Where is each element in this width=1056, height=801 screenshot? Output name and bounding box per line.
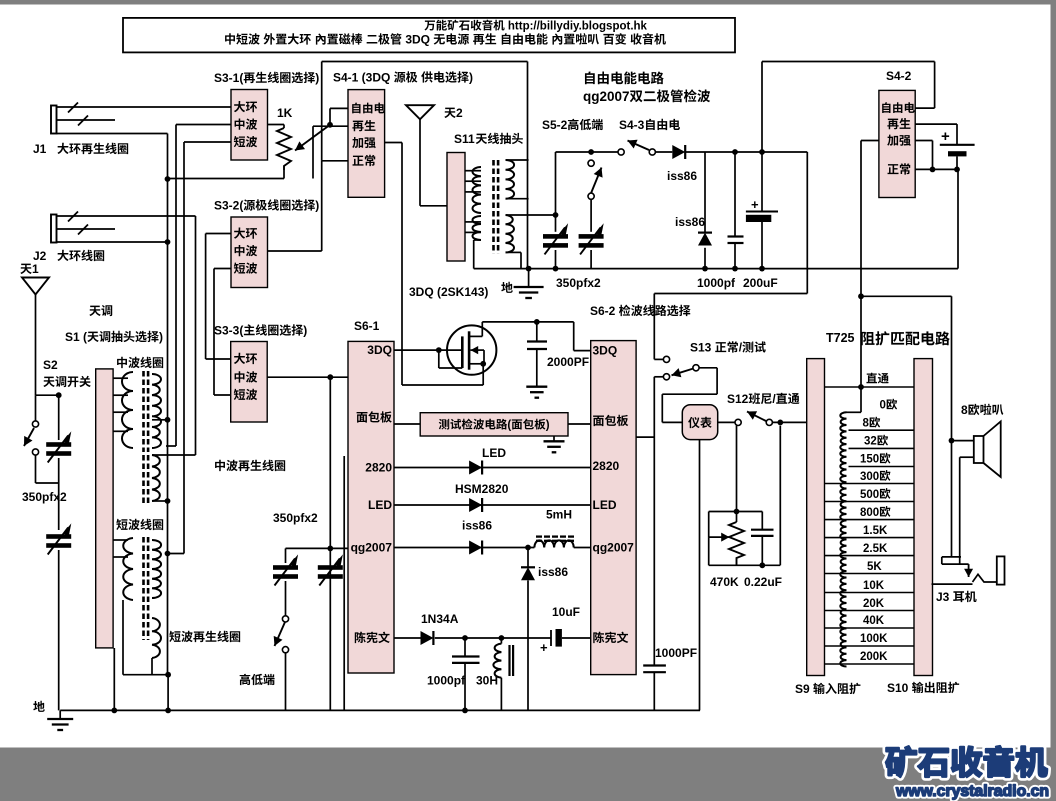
switch S1 selector box xyxy=(96,369,113,648)
tank bottom rail xyxy=(709,564,781,566)
svg-text:1.5K: 1.5K xyxy=(863,525,888,537)
wire free-energy top row xyxy=(556,151,619,153)
frame right bar xyxy=(1051,0,1056,801)
meter 仪表 xyxy=(682,405,717,440)
svg-text:S3-3(: S3-3( xyxy=(214,324,243,338)
svg-text:+: + xyxy=(751,197,759,212)
svg-text:5mH: 5mH xyxy=(546,508,572,522)
wire secondary vertical xyxy=(527,62,529,269)
svg-text:S1 (: S1 ( xyxy=(65,330,87,344)
wire S12 to tank xyxy=(736,426,738,512)
wire S4-1 正常 to S3-2 xyxy=(322,160,348,162)
svg-text:1000pf: 1000pf xyxy=(697,276,736,290)
svg-text:3DQ (2SK143): 3DQ (2SK143) xyxy=(409,285,488,299)
svg-text:2820: 2820 xyxy=(593,459,620,473)
svg-text:1000pf: 1000pf xyxy=(427,674,466,688)
svg-text:100K: 100K xyxy=(860,633,888,645)
transistor Q1 3DQ MOSFET xyxy=(447,325,496,374)
wire speaker return xyxy=(960,456,974,458)
wire ladder direct 直通 xyxy=(825,386,915,388)
svg-text:T725: T725 xyxy=(826,331,855,345)
svg-text:): ) xyxy=(315,199,319,213)
wire bundle vertical b xyxy=(175,125,177,447)
svg-text:S9: S9 xyxy=(795,682,813,696)
svg-text:): ) xyxy=(303,324,307,338)
svg-text:J1: J1 xyxy=(33,142,47,156)
wire bottom ground bus xyxy=(60,709,700,711)
svg-text:+: + xyxy=(941,128,950,145)
ground test box xyxy=(553,436,555,441)
svg-text:30H: 30H xyxy=(476,674,498,688)
svg-text:32: 32 xyxy=(864,436,877,448)
transformer T725 winding xyxy=(840,412,846,666)
switch S9 selector xyxy=(807,359,825,676)
svg-text:2820: 2820 xyxy=(365,461,392,475)
svg-text:8: 8 xyxy=(863,418,870,430)
variable capacitor 350pf B xyxy=(46,534,71,539)
wire main vertical tuning xyxy=(329,377,331,710)
svg-text:40K: 40K xyxy=(863,615,885,627)
svg-text:S4-3: S4-3 xyxy=(619,118,645,132)
svg-text:): ) xyxy=(315,71,319,85)
svg-text:S3-2(: S3-2( xyxy=(214,199,243,213)
wire gate 3DQ xyxy=(394,349,462,351)
svg-text:350pfx2: 350pfx2 xyxy=(556,276,601,290)
svg-text:S10: S10 xyxy=(887,681,912,695)
svg-text:10K: 10K xyxy=(863,580,885,592)
svg-text:S3-1(: S3-1( xyxy=(214,71,243,85)
wire S1 to ground bus xyxy=(113,648,115,710)
svg-text:qg2007: qg2007 xyxy=(351,541,393,555)
svg-text:LED: LED xyxy=(482,446,506,460)
wire S4-2 加强 to matching network xyxy=(861,140,879,142)
switch S5-2 xyxy=(588,160,594,166)
wire iss86 to ground bus xyxy=(527,580,529,710)
wiper 1K to S4-1 xyxy=(295,125,330,151)
svg-text:150: 150 xyxy=(860,454,879,466)
svg-text:S4-1 (3DQ: S4-1 (3DQ xyxy=(333,71,394,85)
svg-text:500: 500 xyxy=(860,489,879,501)
connector J2 xyxy=(51,215,57,243)
svg-text:1N34A: 1N34A xyxy=(421,612,459,626)
ground S11 xyxy=(501,282,513,293)
transformer T1 secondary upper xyxy=(506,160,515,199)
svg-text:qg2007: qg2007 xyxy=(593,541,635,555)
svg-text:0: 0 xyxy=(880,400,886,412)
svg-text:5K: 5K xyxy=(867,561,882,573)
wire bundle vertical a xyxy=(167,134,169,675)
svg-text:iss86: iss86 xyxy=(667,169,697,183)
wire bundle vertical g xyxy=(343,456,345,710)
svg-text:S11: S11 xyxy=(454,132,475,146)
node antenna xyxy=(36,394,59,396)
svg-text:1K: 1K xyxy=(277,106,293,120)
svg-text:): ) xyxy=(159,330,163,344)
svg-text:470K: 470K xyxy=(710,575,739,589)
svg-text:20K: 20K xyxy=(863,598,885,610)
wire bundle vertical e xyxy=(205,234,207,360)
antenna 天2 xyxy=(406,105,434,119)
svg-text:2000PF: 2000PF xyxy=(547,355,589,369)
wire S4-2 加强 jog xyxy=(915,140,932,142)
coil 中波再生线圈 xyxy=(215,460,285,471)
coil 短波线圈 xyxy=(116,519,163,530)
wire row qg2007 xyxy=(394,547,534,549)
wire S4-2 自由电 from top xyxy=(934,62,936,109)
diode iss86 vertical xyxy=(527,548,529,568)
svg-text:J3: J3 xyxy=(936,590,953,604)
ground 2000PF xyxy=(526,386,547,388)
capacitor 2000PF xyxy=(536,322,538,342)
wire bundle vertical d xyxy=(195,216,197,455)
switch 高低端 xyxy=(282,616,288,622)
wire ladder taps right xyxy=(849,429,915,431)
transformer T1 core xyxy=(492,160,495,254)
capacitor 0.22uF xyxy=(761,512,763,530)
transformer T1 secondary lower xyxy=(506,215,515,252)
svg-text:LED: LED xyxy=(368,498,392,512)
wire middle ground bus xyxy=(474,268,958,270)
svg-text:S13: S13 xyxy=(690,341,715,355)
capacitor 350pf on main vertical xyxy=(318,565,343,570)
transformer T1 primary xyxy=(473,167,482,213)
svg-text:350pfx2: 350pfx2 xyxy=(22,490,67,504)
wire row LED xyxy=(394,504,591,506)
coil 中波线圈 xyxy=(117,357,163,368)
wire to speaker top xyxy=(861,295,952,297)
wire top-left long xyxy=(321,62,323,161)
wire bundle vertical f xyxy=(213,269,215,396)
svg-text:LED: LED xyxy=(593,498,617,512)
svg-text:800: 800 xyxy=(860,507,879,519)
wire row 2820 xyxy=(394,467,591,469)
wire drain top xyxy=(482,321,573,323)
capacitor 1000pf shunt xyxy=(734,152,736,237)
svg-text:): ) xyxy=(546,420,550,432)
svg-text:1: 1 xyxy=(32,262,39,276)
svg-text:3DQ: 3DQ xyxy=(367,343,392,357)
wire node to 1000PF xyxy=(653,377,655,666)
svg-text:HSM2820: HSM2820 xyxy=(455,482,509,496)
frame top bar xyxy=(0,0,1056,5)
svg-text:1000PF: 1000PF xyxy=(655,646,697,660)
switch S4-3 xyxy=(618,149,624,155)
antenna 天1 xyxy=(20,264,31,274)
svg-text:S4-2: S4-2 xyxy=(886,69,912,83)
transformer primary taps xyxy=(465,170,481,172)
label 阻扩匹配电路 xyxy=(861,331,950,345)
svg-text:): ) xyxy=(469,71,473,85)
frame bottom bar xyxy=(0,748,1056,801)
svg-text:(: ( xyxy=(507,420,511,432)
svg-text:S2: S2 xyxy=(43,358,58,372)
svg-text:3DQ: 3DQ xyxy=(593,344,618,358)
wire J1 reed to S3-1 xyxy=(57,106,232,108)
wire primary bottom to ground bus xyxy=(474,239,481,241)
wire right drop S13 feed xyxy=(806,152,808,294)
ladder labels xyxy=(866,373,888,384)
switch S10 selector xyxy=(914,359,933,676)
wire J2 reed xyxy=(57,215,196,217)
svg-text:+: + xyxy=(540,640,548,655)
svg-text:10uF: 10uF xyxy=(552,605,580,619)
wire left rail to ground xyxy=(58,550,60,710)
ground bottom-left xyxy=(33,701,45,712)
wire top right long xyxy=(761,62,763,153)
wire S13 to meter xyxy=(699,367,717,369)
svg-text:iss86: iss86 xyxy=(538,565,568,579)
svg-text:3DQ: 3DQ xyxy=(402,33,433,47)
svg-text:S6-2: S6-2 xyxy=(590,304,619,318)
svg-text:0.22uF: 0.22uF xyxy=(744,575,782,589)
watermark 矿石收音机 xyxy=(886,746,1047,777)
test circuit box 面包板 xyxy=(394,423,420,425)
svg-text:8: 8 xyxy=(961,403,968,417)
wire S6-2 right to node xyxy=(636,436,654,438)
label 天调 xyxy=(89,305,112,316)
wire S4-1 自由电 xyxy=(330,107,348,109)
svg-text:iss86: iss86 xyxy=(462,519,492,533)
svg-text:iss86: iss86 xyxy=(675,215,705,229)
svg-text:www.crystalradio.cn: www.crystalradio.cn xyxy=(895,783,1049,800)
diode iss86 top xyxy=(672,145,685,159)
capacitor 350pfx2 free energy xyxy=(555,152,557,232)
resistor 470K rheostat xyxy=(708,512,710,538)
svg-text:S12: S12 xyxy=(727,392,749,406)
wire S4-1 加强 to MOSFET source xyxy=(385,142,402,144)
tank top rail xyxy=(709,511,763,513)
transformer T725 winding entry xyxy=(847,411,862,413)
wire meter bottom to ground bus xyxy=(699,440,701,711)
svg-text:S5-2: S5-2 xyxy=(542,118,568,132)
wire S4-1 再生 to pot bottom xyxy=(313,125,348,127)
wire S3-3 中波 to S6-1 xyxy=(267,376,348,378)
svg-text:S6-1: S6-1 xyxy=(354,319,380,333)
svg-text:300: 300 xyxy=(860,471,879,483)
label 自由电能电路 xyxy=(585,72,664,85)
svg-text:200uF: 200uF xyxy=(743,276,778,290)
svg-text:2: 2 xyxy=(456,106,463,120)
svg-text:J2: J2 xyxy=(33,249,47,263)
wire battery negative xyxy=(915,168,958,170)
capacitor 1000pf bottom xyxy=(462,635,468,641)
inductor 30H xyxy=(499,635,505,641)
svg-text:200K: 200K xyxy=(860,651,888,663)
wire S13 upper feed xyxy=(653,294,655,360)
variable capacitor 350pf A xyxy=(58,395,60,440)
svg-text:http://billydiy.blogspot.hk: http://billydiy.blogspot.hk xyxy=(505,21,648,33)
wire row 陈宪文 xyxy=(394,637,421,639)
svg-text:qg2007: qg2007 xyxy=(583,89,630,104)
coil 短波再生线圈 xyxy=(169,631,240,642)
svg-text:350pfx2: 350pfx2 xyxy=(273,511,318,525)
wire bundle vertical c xyxy=(183,142,185,554)
wire ladder taps full xyxy=(825,483,915,485)
svg-text:2.5K: 2.5K xyxy=(863,543,888,555)
title box xyxy=(123,18,735,53)
connector J1 xyxy=(51,106,57,134)
